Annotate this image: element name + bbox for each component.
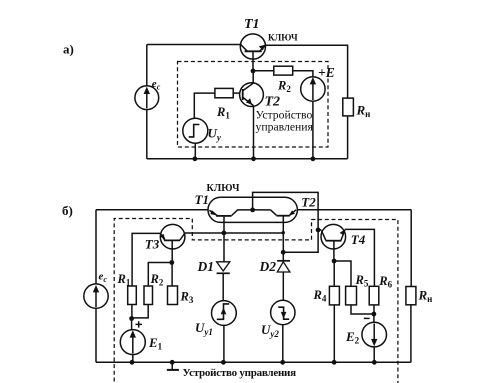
T1 base lead to D1 (b) — [223, 217, 225, 262]
source +E (a) — [301, 77, 325, 101]
wire outer bottom (a) — [147, 158, 348, 160]
wire R1 to T3 emitter (b) — [132, 233, 160, 286]
diode D2 (b) — [277, 260, 290, 262]
wire node to T2 collector (a) — [252, 71, 254, 83]
wire outer left lower (b) — [95, 308, 97, 362]
node T2 emitter bottom (a) — [251, 156, 256, 161]
wire R2 bottom step (b) — [132, 305, 148, 318]
svg-text:+E: +E — [318, 65, 335, 80]
wire E2 bottom (b) — [373, 347, 375, 362]
wire outer right upper (b) — [410, 210, 412, 287]
wire R1 to U_y (a) — [194, 93, 215, 118]
wire R1 to T2 base (a) — [233, 92, 240, 94]
source e_c (a) — [135, 86, 159, 110]
wire U_y to bottom (a) — [194, 143, 196, 159]
wire T3 base node to R2 (b) — [148, 263, 172, 287]
svg-text:Т4: Т4 — [351, 232, 366, 247]
dashed control box (a) — [178, 62, 329, 148]
transistor T3 (b) — [160, 224, 185, 249]
svg-text:управления: управления — [256, 120, 314, 133]
svg-text:Т1: Т1 — [195, 192, 209, 207]
wire +E to bottom (a) — [312, 101, 314, 159]
T1 emitter slant (b) — [209, 210, 217, 215]
T4 emitter wire to R6 (b) — [345, 229, 375, 286]
source E2 (b) — [373, 314, 375, 322]
wire T3 base node to R3 (b) — [171, 263, 173, 287]
wire R6 bottom (b) — [373, 305, 375, 314]
T4 base lead (b) — [333, 241, 335, 261]
wire outer top (a) — [147, 44, 241, 46]
T2 base bar (b) — [276, 215, 289, 217]
resistor R6 (b) — [369, 286, 379, 305]
wire R5 bottom step (b) — [351, 305, 374, 314]
ground symbol (b) — [171, 362, 173, 369]
source U_y2 (b) — [271, 300, 295, 324]
wire R1 bottom (b) — [131, 305, 133, 319]
source e_c (b) — [84, 284, 108, 308]
wire outer top-left (b) — [96, 209, 208, 211]
source E1 (b) — [131, 319, 133, 330]
resistor R5 (b) — [346, 286, 357, 305]
transistor T1 (a) — [240, 34, 265, 59]
wire node to R2 (a) — [253, 70, 274, 72]
wire envelope top link (b) — [253, 192, 319, 252]
wire T3 collector (b) — [185, 232, 283, 234]
resistor R1 (a) — [215, 88, 233, 97]
resistor R2 (b) — [144, 286, 153, 305]
resistor R2 (a) — [274, 66, 293, 75]
T3 base lead (b) — [171, 241, 173, 263]
node T1 base cross (b) — [222, 231, 227, 236]
svg-text:Устройство управления: Устройство управления — [183, 367, 297, 379]
wire outer top-right (b) — [297, 209, 411, 211]
diode D1 (b) — [217, 262, 230, 271]
wire outer bottom (b) — [96, 361, 411, 363]
wire U_y1 bottom (b) — [223, 325, 225, 362]
T2 emitter slant (b) — [289, 210, 296, 216]
minus sign E2 (b) — [364, 317, 370, 319]
wire E1 bottom (b) — [132, 355, 134, 363]
svg-text:D2: D2 — [259, 259, 277, 274]
node T4 collector (b) — [316, 228, 321, 233]
svg-text:Т2: Т2 — [265, 95, 281, 110]
plus sign E1 (b) — [136, 321, 143, 327]
resistor Rn (b) — [406, 287, 416, 305]
T1 collector slant (b) — [232, 210, 253, 216]
node +E bottom (a) — [311, 156, 316, 161]
T2 emitter wire to bottom (a) — [253, 106, 255, 159]
svg-text:Т1: Т1 — [244, 17, 260, 32]
wire R4 bottom (b) — [333, 305, 335, 362]
svg-text:а): а) — [63, 42, 74, 57]
dual transistor envelope (b) — [208, 197, 297, 222]
svg-text:Т2: Т2 — [301, 195, 316, 210]
node T3 base (b) — [169, 260, 174, 265]
wire outer right with load (a) — [265, 45, 347, 159]
resistor Rn (a) — [343, 98, 354, 116]
node envelope centre (b) — [250, 208, 255, 213]
transistor T2 (a) — [240, 83, 264, 107]
T1 base lead (a) — [252, 52, 254, 71]
dashed control box (b) — [114, 219, 398, 383]
wire outer left upper (b) — [95, 210, 97, 285]
wire T4 base to R5 (b) — [334, 261, 351, 286]
node T2 base joint (b) — [281, 250, 286, 255]
node U_y bottom (a) — [193, 156, 198, 161]
wire T4 base to R4 (b) — [333, 261, 335, 286]
svg-text:КЛЮЧ: КЛЮЧ — [207, 183, 241, 194]
resistor R4 (b) — [329, 286, 339, 305]
transistor T4 (b) — [321, 224, 346, 249]
node R5 R6 E2 (b) — [372, 312, 377, 317]
svg-text:б): б) — [62, 203, 73, 218]
T2 collector slant (b) — [253, 210, 277, 215]
node R1 R2 E1 (b) — [129, 316, 134, 321]
svg-text:Т3: Т3 — [145, 237, 160, 252]
T2 base lead to D2 (b) — [282, 216, 284, 260]
svg-text:D1: D1 — [197, 259, 215, 274]
wire outer left (a) — [146, 45, 148, 159]
node T1 base (a) — [251, 69, 256, 74]
resistor R1 (b) — [128, 286, 137, 305]
wire outer right lower (b) — [410, 305, 412, 363]
svg-text:КЛЮЧ: КЛЮЧ — [268, 32, 298, 42]
source U_y (a) — [183, 118, 208, 143]
resistor R3 (b) — [168, 286, 178, 305]
T1 base bar (b) — [216, 215, 231, 217]
wire R2 to +E (a) — [293, 71, 313, 77]
wire U_y2 bottom (b) — [282, 325, 284, 363]
source U_y1 (b) — [212, 301, 237, 326]
